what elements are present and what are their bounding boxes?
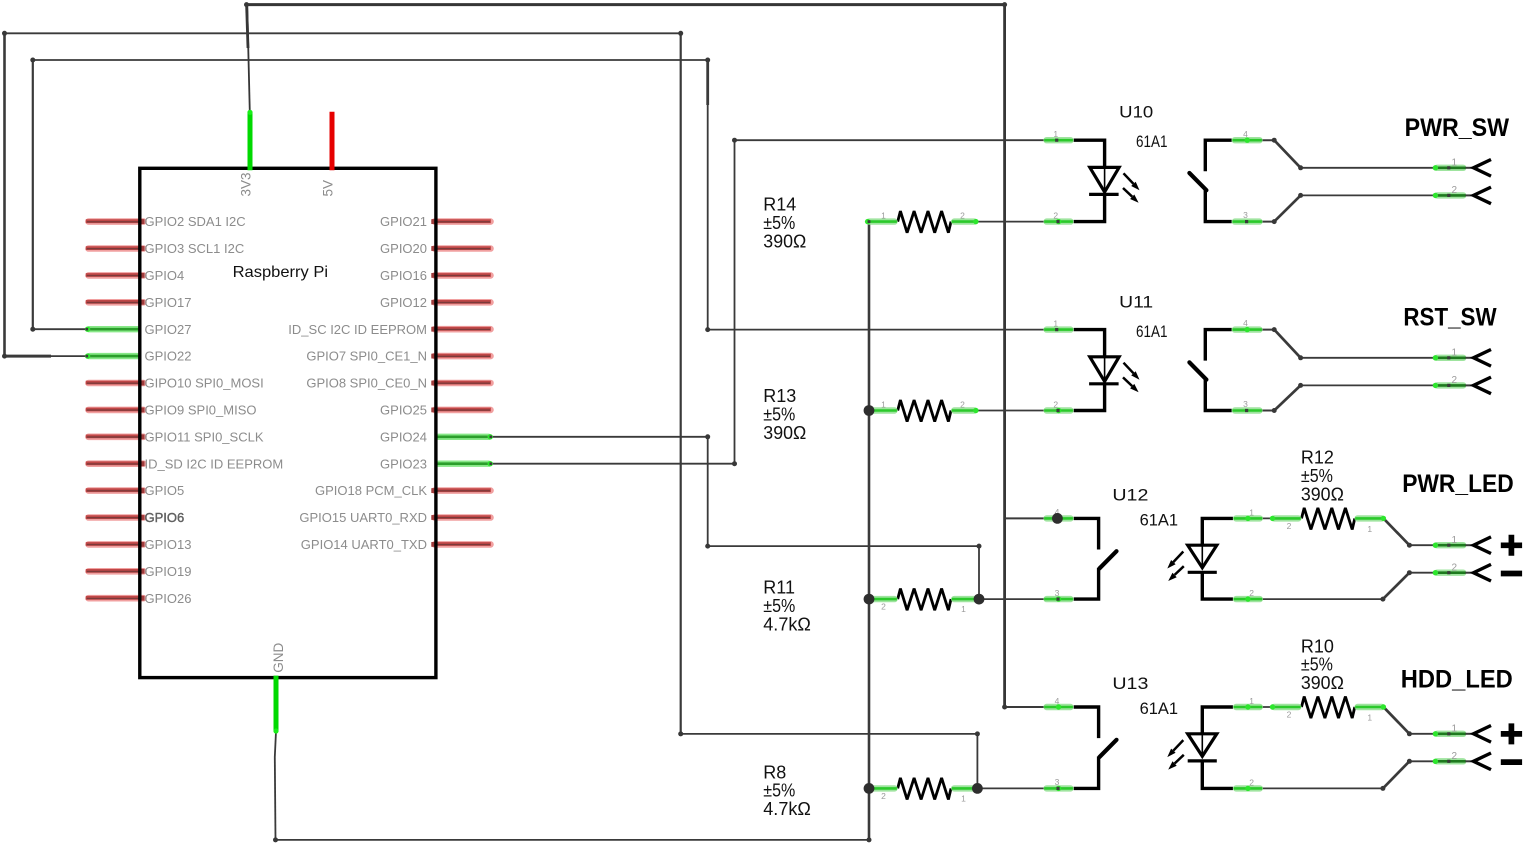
wire GND net: bottom rail (276, 839, 870, 841)
svg-text:GPIO21: GPIO21 (380, 214, 427, 229)
svg-text:2: 2 (1452, 375, 1458, 386)
wire GPIO23 net: pin to riser (491, 140, 734, 464)
pin GPIO7 (right 6) (306, 349, 491, 364)
wire 3V3 branch to U12 pin4 (1005, 517, 1058, 519)
wire GND net: resistor rail vertical (868, 222, 871, 840)
svg-text:1: 1 (1249, 696, 1254, 706)
svg-text:2: 2 (1053, 400, 1058, 410)
wire R8 to U13 pin3 (977, 787, 1058, 789)
pin GPIO9 (left 8) (86, 403, 257, 418)
wire R12 and U12 pin2 to PWR_LED connector (1247, 518, 1449, 599)
wire GPIO24 net: horizontal to R11 (708, 546, 979, 599)
wire 3V3 net top horizontal (247, 5, 1005, 112)
svg-text:GPIO2 SDA1 I2C: GPIO2 SDA1 I2C (145, 214, 246, 229)
svg-text:R14: R14 (763, 195, 796, 215)
transistor U12 optocoupler 61A1 (1044, 486, 1262, 602)
svg-text:1: 1 (1367, 524, 1372, 534)
svg-text:2: 2 (1452, 185, 1458, 196)
svg-text:2: 2 (960, 210, 965, 220)
svg-text:61A1: 61A1 (1136, 322, 1168, 341)
wire U10 to PWR_SW connector (1247, 140, 1449, 221)
svg-text:GPIO25: GPIO25 (380, 403, 427, 418)
Raspberry Pi U1 (140, 168, 436, 677)
svg-text:GPIO17: GPIO17 (145, 295, 192, 310)
svg-text:GPIO9 SPI0_MISO: GPIO9 SPI0_MISO (145, 403, 257, 418)
svg-text:±5%: ±5% (1301, 466, 1333, 486)
svg-text:4: 4 (1243, 129, 1248, 139)
pin GPIO8 (right 7) (306, 376, 491, 391)
svg-text:±5%: ±5% (763, 404, 795, 424)
pin GPIO11 (left 9) (86, 429, 264, 444)
transistor U13 optocoupler 61A1 (1044, 674, 1262, 791)
svg-text:R12: R12 (1301, 448, 1334, 468)
svg-text:±5%: ±5% (763, 596, 795, 616)
svg-text:1: 1 (1249, 507, 1254, 517)
resistor R14 390 ohm (763, 195, 978, 252)
svg-text:GPIO11 SPI0_SCLK: GPIO11 SPI0_SCLK (145, 429, 264, 444)
svg-text:±5%: ±5% (1301, 655, 1333, 675)
svg-text:2: 2 (1287, 521, 1292, 531)
wire U13 pin1 to R10 (1247, 706, 1273, 708)
node junction dots (big) (864, 405, 1063, 794)
svg-text:GPIO12: GPIO12 (380, 295, 427, 310)
pin 5V (top) (320, 112, 335, 197)
resistor R11 4.7k ohm (763, 578, 976, 635)
svg-text:ID_SD I2C ID EEPROM: ID_SD I2C ID EEPROM (145, 456, 284, 471)
svg-text:2: 2 (1287, 709, 1292, 719)
connector PWR_LED (1402, 470, 1522, 581)
svg-text:4.7kΩ: 4.7kΩ (763, 799, 811, 819)
connector HDD_LED (1401, 666, 1522, 770)
svg-text:4.7kΩ: 4.7kΩ (763, 614, 811, 634)
pin GPIO12 (right 4) (380, 295, 491, 310)
pin GPIO6 (left 12) (86, 510, 184, 525)
svg-text:1: 1 (961, 604, 966, 614)
svg-text:1: 1 (1452, 348, 1458, 359)
pin GPIO15 (right 12) (299, 510, 491, 525)
pin GPIO16 (right 3) (380, 268, 491, 283)
svg-text:2: 2 (1452, 563, 1458, 574)
wire R11 to U12 pin3 (978, 598, 1059, 600)
resistor R12 390 ohm (1270, 448, 1386, 534)
connector RST_SW (1403, 303, 1497, 393)
pin GPIO21 (right 1) (380, 214, 491, 229)
svg-text:390Ω: 390Ω (763, 231, 806, 251)
wire GPIO22 net: long vertical (680, 33, 682, 734)
pin GPIO27 (left 5) (85, 322, 192, 337)
svg-text:GPIO27: GPIO27 (145, 322, 192, 337)
wire 3V3 branch to U13 pin4 (1005, 706, 1058, 708)
svg-text:2: 2 (1249, 588, 1254, 598)
wire GPIO22 net: bottom horizontal to R8 (681, 734, 978, 789)
svg-text:R10: R10 (1301, 636, 1334, 656)
op-amp U10 optocoupler 61A1 (1044, 102, 1262, 224)
op-amp U11 optocoupler 61A1 (1044, 292, 1262, 413)
svg-text:3: 3 (1055, 777, 1060, 787)
svg-text:61A1: 61A1 (1140, 699, 1179, 718)
svg-text:HDD_LED: HDD_LED (1401, 666, 1513, 694)
pin GPIO17 (left 4) (86, 295, 192, 310)
pin GPIO18 (right 11) (315, 483, 491, 498)
pin GPIO19 (left 14) (86, 564, 192, 579)
svg-text:61A1: 61A1 (1136, 132, 1168, 151)
svg-text:3: 3 (1243, 210, 1248, 220)
svg-text:2: 2 (1452, 751, 1458, 762)
pin GPIO20 (right 2) (380, 241, 491, 256)
wire GPIO24 net: pin to riser (491, 437, 707, 546)
svg-text:GPIO20: GPIO20 (380, 241, 427, 256)
svg-text:3: 3 (1055, 588, 1060, 598)
svg-text:1: 1 (881, 210, 886, 220)
svg-text:5V: 5V (320, 180, 335, 197)
svg-text:RST_SW: RST_SW (1403, 303, 1497, 331)
wire R14 to U10 pin2 (978, 221, 1059, 223)
wire R10 and U13 pin2 to HDD_LED connector (1247, 707, 1449, 788)
svg-text:1: 1 (881, 399, 886, 409)
svg-text:GPIO5: GPIO5 (145, 483, 185, 498)
svg-text:U11: U11 (1119, 292, 1153, 311)
wire GPIO27 net: pin to left riser (33, 60, 87, 329)
svg-text:±5%: ±5% (763, 213, 795, 233)
pin ID_SC (right 5) (288, 322, 491, 337)
svg-text:GPIO15 UART0_RXD: GPIO15 UART0_RXD (299, 510, 427, 525)
pin GND (bottom) (271, 643, 286, 734)
svg-text:ID_SC I2C ID EEPROM: ID_SC I2C ID EEPROM (288, 322, 427, 337)
pin 3V3 (top) (238, 110, 253, 197)
svg-text:1: 1 (961, 793, 966, 803)
svg-text:4: 4 (1055, 696, 1060, 706)
svg-text:GPIO3 SCL1 I2C: GPIO3 SCL1 I2C (145, 241, 245, 256)
resistor R13 390 ohm (763, 386, 978, 443)
svg-text:GPIO19: GPIO19 (145, 564, 192, 579)
pin GPIO2 (left 1) (86, 214, 246, 229)
svg-text:1: 1 (1367, 712, 1372, 722)
pin ID_SD (left 10) (86, 456, 283, 471)
svg-text:GPIO13: GPIO13 (145, 537, 192, 552)
pin GPIO3 (left 2) (86, 241, 244, 256)
svg-text:U13: U13 (1112, 674, 1148, 693)
pin GPIO14 (right 13) (301, 537, 491, 552)
svg-text:4: 4 (1243, 318, 1248, 328)
pin GPIO24 (right 9) (380, 429, 493, 444)
svg-text:GPIO4: GPIO4 (145, 268, 185, 283)
pin GPIO25 (right 8) (380, 403, 491, 418)
wire U11 to RST_SW connector (1247, 330, 1449, 411)
svg-text:U12: U12 (1112, 486, 1148, 505)
svg-text:GPIO24: GPIO24 (380, 429, 427, 444)
svg-text:3: 3 (1243, 399, 1248, 409)
svg-text:GPIO7 SPI0_CE1_N: GPIO7 SPI0_CE1_N (306, 349, 427, 364)
svg-text:2: 2 (1053, 211, 1058, 221)
svg-text:1: 1 (1053, 129, 1058, 139)
wire 3V3 net right vertical (1003, 5, 1006, 707)
svg-text:PWR_LED: PWR_LED (1402, 470, 1514, 498)
svg-text:2: 2 (960, 399, 965, 409)
pin GIPO10 (left 7) (86, 376, 264, 391)
svg-text:1: 1 (1452, 535, 1458, 546)
svg-text:±5%: ±5% (763, 781, 795, 801)
svg-text:390Ω: 390Ω (1301, 485, 1344, 505)
svg-text:1: 1 (1452, 724, 1458, 735)
wire R13 to U11 pin2 (978, 410, 1059, 412)
svg-text:GPIO8 SPI0_CE0_N: GPIO8 SPI0_CE0_N (306, 376, 427, 391)
wire GPIO27 net: drop to U11 pin1 (708, 60, 1057, 330)
wire U12 pin1 to R12 (1247, 517, 1273, 519)
resistor R8 4.7k ohm (763, 762, 976, 819)
svg-text:390Ω: 390Ω (763, 423, 806, 443)
wire GPIO22 net: top horizontal (5, 32, 681, 34)
svg-text:R8: R8 (763, 762, 786, 782)
svg-text:GPIO26: GPIO26 (145, 591, 192, 606)
svg-text:GPIO23: GPIO23 (380, 456, 427, 471)
svg-text:390Ω: 390Ω (1301, 673, 1344, 693)
svg-text:GPIO16: GPIO16 (380, 268, 427, 283)
connector PWR_SW (1405, 114, 1510, 204)
pin GPIO13 (left 13) (86, 537, 192, 552)
svg-text:2: 2 (1249, 777, 1254, 787)
pin GPIO26 (left 15) (86, 591, 192, 606)
svg-text:2: 2 (881, 602, 886, 612)
wire GND net: stub to bottom rail (275, 732, 276, 840)
svg-text:R13: R13 (763, 386, 796, 406)
pin GPIO4 (left 3) (86, 268, 184, 283)
svg-text:GPIO22: GPIO22 (145, 349, 192, 364)
svg-text:GPIO14 UART0_TXD: GPIO14 UART0_TXD (301, 537, 427, 552)
svg-text:Raspberry Pi: Raspberry Pi (233, 264, 329, 281)
wire GPIO23 net: horizontal to U10 pin1 (735, 139, 1057, 141)
svg-text:GPIO6: GPIO6 (145, 510, 185, 525)
svg-text:GIPO10 SPI0_MOSI: GIPO10 SPI0_MOSI (145, 376, 264, 391)
svg-text:R11: R11 (763, 578, 795, 598)
svg-text:GPIO18 PCM_CLK: GPIO18 PCM_CLK (315, 483, 427, 498)
pin GPIO22 (left 6) (85, 349, 192, 364)
svg-text:1: 1 (1053, 319, 1058, 329)
wire GPIO22 net: pin to left riser (5, 33, 87, 356)
svg-text:3V3: 3V3 (238, 172, 253, 196)
pin GPIO23 (right 10) (380, 456, 493, 471)
wire GPIO27 net: top horizontal (33, 59, 708, 61)
svg-text:GND: GND (271, 643, 286, 673)
svg-text:1: 1 (1452, 158, 1458, 169)
svg-text:U10: U10 (1119, 102, 1153, 121)
Raspberry Pi U1 border (140, 168, 436, 677)
svg-text:61A1: 61A1 (1140, 511, 1179, 530)
svg-text:PWR_SW: PWR_SW (1405, 114, 1510, 142)
resistor R10 390 ohm (1270, 636, 1386, 722)
pin GPIO5 (left 11) (86, 483, 184, 498)
svg-text:2: 2 (881, 791, 886, 801)
